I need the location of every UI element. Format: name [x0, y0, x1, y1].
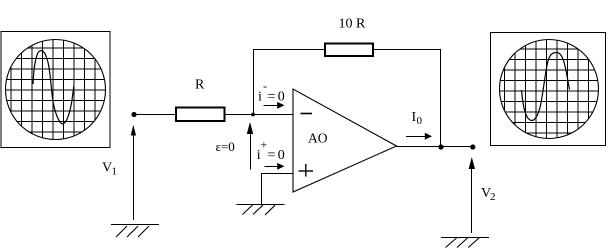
- svg-text:=: =: [268, 90, 276, 105]
- ground (op-amp + input): [237, 205, 285, 216]
- arrow I0 (output current): [406, 136, 426, 138]
- svg-text:=: =: [268, 148, 276, 163]
- wire feedback left vertical: [253, 49, 255, 115]
- wire op-amp output: [397, 146, 473, 148]
- op-amp plus sign: [299, 164, 314, 177]
- svg-text:i: i: [258, 90, 262, 105]
- svg-text:0: 0: [417, 115, 423, 127]
- svg-text:AO: AO: [308, 131, 328, 146]
- svg-text:2: 2: [490, 191, 496, 203]
- wire feedback top right horizontal: [373, 49, 441, 51]
- svg-text:ε=0: ε=0: [216, 139, 235, 154]
- wire feedback right vertical: [440, 49, 442, 147]
- op-amp U1 (AO) triangle: [293, 89, 397, 192]
- wire node B to op-amp inverting input: [253, 114, 293, 116]
- ground (input side): [111, 225, 159, 238]
- epsilon arrow (differential voltage): [250, 131, 252, 170]
- svg-text:10 R: 10 R: [339, 17, 367, 32]
- svg-text:0: 0: [278, 90, 285, 105]
- V1 arrow (input voltage): [133, 134, 135, 220]
- svg-text:1: 1: [112, 166, 118, 178]
- resistor 10R (feedback): [325, 44, 373, 57]
- oscilloscope 1 graticule grid: [4, 39, 107, 141]
- svg-text:0: 0: [278, 148, 285, 163]
- node A (input node, V1): [131, 112, 136, 117]
- ground (output side): [441, 238, 489, 248]
- node C (feedback junction): [438, 144, 443, 149]
- wire node A to resistor R: [134, 114, 176, 116]
- svg-text:+: +: [261, 137, 268, 151]
- wire op-amp non-inverting input: [262, 174, 294, 205]
- oscilloscope 1 CRT circle: [6, 40, 106, 140]
- arrow i- (current into inverting input): [264, 105, 279, 107]
- op-amp minus sign: [301, 113, 313, 115]
- node D (output node, V2): [470, 144, 475, 149]
- svg-text:R: R: [195, 78, 205, 93]
- node B (inverting input node): [251, 113, 255, 117]
- oscilloscope 1 (input scope) frame: [1, 32, 110, 148]
- oscilloscope 2 CRT circle: [500, 40, 599, 139]
- oscilloscope 2 (output scope) frame: [491, 33, 606, 146]
- resistor R: [176, 108, 225, 122]
- svg-text:-: -: [263, 79, 267, 93]
- arrow i+ (current into non-inverting input): [265, 166, 279, 168]
- oscilloscope 1 sine trace (V1 waveform): [33, 51, 74, 125]
- wire feedback top left horizontal: [253, 49, 325, 51]
- V2 arrow (output voltage): [471, 168, 473, 233]
- wire resistor R to node B: [225, 114, 254, 116]
- oscilloscope 2 graticule grid: [498, 38, 600, 140]
- oscilloscope 2 sine trace (V2 waveform, inverted): [522, 52, 570, 120]
